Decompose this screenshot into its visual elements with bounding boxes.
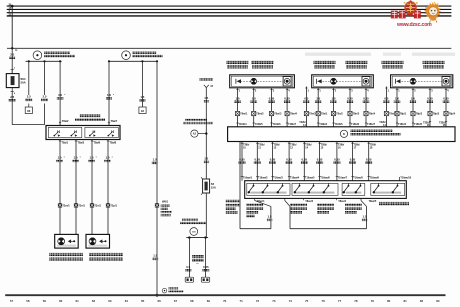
lower connector label 7 bbox=[336, 177, 348, 180]
box C terminal 3 bbox=[423, 121, 431, 127]
svg-text:60: 60 bbox=[59, 299, 63, 303]
rail B2 junctions bbox=[108, 60, 158, 62]
svg-text:1.0: 1.0 bbox=[58, 93, 62, 97]
svg-text:71: 71 bbox=[239, 299, 243, 303]
connector T2 T8a/8 bbox=[106, 203, 118, 207]
wire T8a/8 bbox=[107, 140, 109, 235]
svg-text:61: 61 bbox=[75, 299, 79, 303]
svg-text:T8n/2: T8n/2 bbox=[336, 113, 343, 116]
svg-text:1.5: 1.5 bbox=[204, 157, 208, 161]
lower wire label 5 bbox=[301, 157, 308, 163]
svg-text:T8p/2: T8p/2 bbox=[416, 113, 423, 116]
plug right bbox=[201, 277, 209, 282]
wire B1 drop 1 bbox=[28, 61, 30, 95]
wire label ground wire upper bbox=[152, 158, 158, 164]
svg-text:T8n/3: T8n/3 bbox=[353, 113, 360, 116]
svg-text:T8p/3: T8p/3 bbox=[433, 113, 440, 116]
T8ax/5 label bbox=[369, 200, 377, 203]
wire label B2 drop1 bbox=[106, 93, 115, 100]
J136 lower terminal 5 bbox=[303, 142, 312, 181]
svg-text:T8n/3: T8n/3 bbox=[389, 113, 396, 116]
connection circle B397 bbox=[190, 228, 198, 236]
wire label T8a/6 bbox=[88, 156, 97, 163]
wire T8a/1 bbox=[59, 140, 61, 235]
wire label T8a/3 bbox=[72, 156, 81, 163]
svg-text:T8a/2: T8a/2 bbox=[62, 119, 69, 123]
svg-text:1.0: 1.0 bbox=[106, 156, 110, 160]
svg-text:0.35: 0.35 bbox=[284, 97, 290, 101]
control unit circle K bbox=[340, 130, 347, 137]
wire label 2.5 red bbox=[9, 53, 15, 59]
motor box A bbox=[230, 75, 295, 88]
svg-text:0.5: 0.5 bbox=[304, 97, 308, 101]
lower wire label 3 bbox=[269, 157, 276, 163]
svg-text:80: 80 bbox=[387, 299, 391, 303]
box A terminal 4 bbox=[286, 123, 297, 126]
ground point circle bbox=[162, 288, 167, 293]
svg-text:1.0: 1.0 bbox=[90, 156, 94, 160]
box A wire label 1 bbox=[234, 97, 241, 103]
box C connector 3 bbox=[428, 111, 440, 115]
box C motor 2 bbox=[442, 77, 450, 86]
switch module text bbox=[192, 255, 204, 266]
box A pin 4 bbox=[286, 88, 290, 127]
svg-text:T2n/1: T2n/1 bbox=[78, 205, 85, 208]
svg-text:T8ax/4: T8ax/4 bbox=[338, 200, 346, 203]
svg-text:www.dzsc.com: www.dzsc.com bbox=[396, 22, 432, 28]
svg-text:S5: S5 bbox=[211, 182, 215, 186]
between-box wire bbox=[305, 87, 309, 127]
J136 lower terminal 9 bbox=[368, 142, 377, 181]
svg-text:62: 62 bbox=[92, 299, 96, 303]
motor box V29 text bbox=[89, 253, 123, 261]
terminal T8a/3 bbox=[75, 141, 85, 145]
wire label 15 feed bbox=[204, 96, 210, 102]
svg-text:1.5: 1.5 bbox=[268, 215, 272, 219]
connection A text bbox=[44, 52, 75, 58]
lower switch glyph 5 bbox=[308, 183, 315, 193]
svg-text:T16aw/3: T16aw/3 bbox=[273, 177, 283, 180]
wire label drop3 bbox=[57, 93, 66, 100]
svg-text:T8p/1: T8p/1 bbox=[400, 113, 407, 116]
rail B2 bbox=[108, 60, 157, 62]
connector T2 T8a/6 bbox=[90, 203, 102, 207]
svg-text:T16aw/5: T16aw/5 bbox=[305, 177, 315, 180]
svg-text:T16aw/1: T16aw/1 bbox=[243, 177, 253, 180]
switch box E1 outer bbox=[46, 126, 120, 140]
lower switch glyph 10 bbox=[392, 183, 399, 193]
control unit J136 box bbox=[228, 127, 455, 142]
text col 5 bbox=[345, 203, 362, 213]
wire B1 drop 2 label bbox=[41, 95, 48, 101]
svg-text:0.35: 0.35 bbox=[334, 157, 340, 161]
faint scan text bbox=[305, 53, 455, 56]
wire label above fuse S5 bbox=[204, 157, 210, 163]
svg-text:76: 76 bbox=[321, 299, 325, 303]
box B motor 1 bbox=[331, 78, 337, 84]
connector T2 T8a/1 bbox=[58, 203, 70, 207]
lower inner box 3 bbox=[342, 183, 365, 195]
T8ax/3 label bbox=[304, 198, 314, 202]
box A pin 1 bbox=[236, 88, 240, 127]
lower connector label 3 bbox=[271, 177, 283, 180]
svg-text:1.0: 1.0 bbox=[411, 97, 415, 101]
lower switch glyph 1 bbox=[248, 183, 255, 193]
box C wire label 4 bbox=[443, 97, 450, 103]
box A terminal 3 bbox=[270, 123, 281, 126]
lower wire label 7 bbox=[333, 157, 340, 163]
box C dashed link bbox=[399, 80, 447, 82]
svg-text:0.35: 0.35 bbox=[255, 157, 261, 161]
svg-text:70: 70 bbox=[223, 299, 227, 303]
box B label left bbox=[314, 61, 336, 69]
J136 lower terminal 7 bbox=[336, 142, 345, 181]
svg-text:0.35: 0.35 bbox=[269, 97, 275, 101]
box B connector 3 bbox=[348, 111, 360, 115]
wire S5 to bar bbox=[205, 193, 207, 238]
wire label drop1 bbox=[25, 95, 32, 101]
svg-text:T16b/5: T16b/5 bbox=[414, 123, 423, 126]
box C label left bbox=[382, 61, 404, 69]
wire T8a/6 bbox=[91, 140, 93, 235]
wire label ground wire bbox=[152, 254, 158, 260]
svg-text:72: 72 bbox=[256, 299, 260, 303]
wire 15 feed symbol bbox=[200, 78, 214, 88]
lower inner box 2 bbox=[292, 183, 338, 195]
terminal T8a/8 bbox=[107, 141, 117, 145]
svg-text:1.0: 1.0 bbox=[236, 97, 240, 101]
box B wire label 2 bbox=[330, 97, 337, 103]
between-box terminal bbox=[299, 121, 306, 127]
svg-text:0.35: 0.35 bbox=[302, 157, 308, 161]
track numbers bbox=[10, 299, 440, 303]
lower switch glyph 9 bbox=[373, 183, 380, 193]
svg-text:H: H bbox=[16, 49, 18, 52]
svg-text:T8ax/1: T8ax/1 bbox=[257, 200, 265, 203]
wire B2 drop 1 bbox=[108, 61, 110, 125]
svg-text:0.35: 0.35 bbox=[347, 97, 353, 101]
lower wire label 8 bbox=[349, 157, 356, 163]
switch box E1 inner left bbox=[48, 127, 81, 137]
motor box V28 bbox=[55, 234, 78, 248]
lower inner box 1 bbox=[247, 183, 290, 195]
box B wire label 1 bbox=[315, 97, 322, 103]
switch glyph 1 bbox=[54, 130, 61, 136]
wire label B2 drop2 bbox=[139, 95, 145, 101]
lower switch glyph 7 bbox=[343, 183, 350, 193]
svg-text:0.35: 0.35 bbox=[317, 157, 323, 161]
box A arrow bbox=[236, 79, 241, 84]
box B arrow bbox=[317, 79, 322, 84]
junction rail A bbox=[11, 47, 18, 52]
svg-text:65: 65 bbox=[141, 299, 145, 303]
plug left bbox=[185, 277, 193, 282]
svg-text:18: 18 bbox=[141, 109, 145, 113]
text col 3 bbox=[290, 203, 307, 213]
svg-text:T16b/4: T16b/4 bbox=[398, 123, 407, 126]
J136 lower terminal 3 bbox=[271, 142, 280, 181]
svg-text:0.35: 0.35 bbox=[427, 97, 433, 101]
svg-text:T8a/1: T8a/1 bbox=[61, 141, 68, 145]
connection circle A (30) bbox=[33, 51, 42, 60]
fuse S64 bbox=[6, 68, 19, 95]
wire B2 drop 3 (to ground) bbox=[156, 61, 158, 294]
box A motor 1 bbox=[251, 78, 257, 84]
svg-text:1.0: 1.0 bbox=[107, 93, 111, 97]
svg-text:57: 57 bbox=[10, 299, 14, 303]
svg-text:2.5: 2.5 bbox=[43, 95, 47, 99]
svg-text:1.5: 1.5 bbox=[153, 254, 157, 258]
between-box connector bbox=[384, 111, 396, 115]
box B label right bbox=[346, 61, 368, 69]
U-turn wire bbox=[12, 104, 44, 125]
box B terminal 3 bbox=[349, 123, 360, 126]
svg-text:T8n/3: T8n/3 bbox=[309, 113, 316, 116]
svg-text:1.5: 1.5 bbox=[204, 96, 208, 100]
box B connector 2 bbox=[331, 111, 343, 115]
svg-text:75: 75 bbox=[305, 299, 309, 303]
wire label T8a/8 bbox=[104, 156, 113, 163]
box C pin 1 bbox=[396, 88, 400, 127]
svg-text:66: 66 bbox=[157, 299, 161, 303]
svg-text:0.35: 0.35 bbox=[350, 157, 356, 161]
svg-text:T8n/1: T8n/1 bbox=[321, 113, 328, 116]
svg-text:73: 73 bbox=[272, 299, 276, 303]
svg-text:W6/1: W6/1 bbox=[162, 200, 169, 204]
svg-text:59: 59 bbox=[43, 299, 47, 303]
box B pin 2 bbox=[332, 88, 336, 127]
switch box E1 inner right bbox=[85, 127, 118, 137]
bottom earth rail bbox=[5, 294, 445, 296]
between-box wire label bbox=[383, 97, 390, 103]
box B connector 1 bbox=[316, 111, 328, 115]
text col 4 bbox=[317, 203, 334, 213]
svg-text:T16b/7: T16b/7 bbox=[367, 123, 376, 126]
wire to fuse S64 bbox=[11, 48, 13, 73]
box A terminal 2 bbox=[253, 123, 264, 126]
lower connector label 5 bbox=[303, 177, 315, 180]
svg-text:68: 68 bbox=[190, 299, 194, 303]
box C pin 4 bbox=[445, 88, 449, 127]
svg-text:T8a/7: T8a/7 bbox=[111, 119, 118, 123]
svg-text:83: 83 bbox=[27, 109, 31, 113]
wire B1 drop 2 bbox=[44, 61, 46, 95]
wire fuse to U-turn bbox=[11, 91, 13, 124]
svg-text:T8n/4: T8n/4 bbox=[369, 113, 376, 116]
lower wire label 2 bbox=[254, 157, 261, 163]
U1 terminal label bbox=[257, 200, 265, 203]
wire B2 drop 2 bbox=[141, 61, 143, 107]
svg-text:T16b/6: T16b/6 bbox=[351, 123, 360, 126]
between-box connector bbox=[304, 111, 316, 115]
box B wire label 3 bbox=[347, 97, 354, 103]
svg-text:15A: 15A bbox=[211, 185, 216, 189]
svg-text:1.0: 1.0 bbox=[58, 156, 62, 160]
target box 83 bbox=[25, 104, 32, 114]
U2 wire bbox=[285, 198, 367, 228]
connection bar text bbox=[180, 219, 206, 225]
lower wire label 4 bbox=[286, 157, 293, 163]
svg-text:T8m/2: T8m/2 bbox=[256, 113, 264, 116]
svg-text:79: 79 bbox=[371, 299, 375, 303]
fuse S64 value bbox=[20, 77, 25, 84]
lower connector label 2 bbox=[256, 177, 268, 180]
motor box V28 text bbox=[49, 253, 83, 261]
connection B text bbox=[133, 52, 163, 58]
svg-text:T16b/6: T16b/6 bbox=[273, 123, 282, 126]
lower wire label 1 bbox=[239, 157, 246, 163]
ground junction bbox=[156, 294, 159, 297]
svg-text:1.0: 1.0 bbox=[74, 156, 78, 160]
svg-text:0.35: 0.35 bbox=[286, 157, 292, 161]
wire label T8a/1 bbox=[56, 156, 65, 163]
text col 2 bbox=[247, 203, 264, 217]
box C wire label 2 bbox=[410, 97, 417, 103]
svg-text:64: 64 bbox=[125, 299, 129, 303]
lower connector label 6 bbox=[318, 177, 330, 180]
box C motor 1 bbox=[410, 78, 416, 84]
svg-text:T16aw/9: T16aw/9 bbox=[370, 177, 380, 180]
terminal T8a/7 bbox=[108, 119, 118, 126]
svg-text:T2o/1: T2o/1 bbox=[94, 205, 101, 208]
svg-text:1.0: 1.0 bbox=[252, 97, 256, 101]
wire bar drop right bbox=[205, 238, 207, 278]
svg-text:1.0: 1.0 bbox=[316, 97, 320, 101]
rail B1 bbox=[26, 60, 62, 62]
box B dashed link bbox=[320, 80, 368, 82]
bus line 31 bbox=[7, 13, 452, 16]
lower connector label 9 bbox=[368, 177, 380, 180]
terminal T8a/1 bbox=[59, 141, 69, 145]
lower connector label 4 bbox=[288, 177, 300, 180]
box B motor 2 bbox=[362, 77, 370, 86]
U1 wire bbox=[240, 142, 271, 229]
svg-text:T16b/4: T16b/4 bbox=[239, 123, 248, 126]
svg-text:T16aw/2: T16aw/2 bbox=[258, 177, 268, 180]
lower connector label 8 bbox=[351, 177, 363, 180]
motor box B bbox=[312, 75, 374, 88]
svg-text:T8a/8: T8a/8 bbox=[109, 141, 116, 145]
svg-text:T2m/1: T2m/1 bbox=[62, 205, 70, 208]
J136 lower terminal 6 bbox=[318, 142, 327, 181]
J136 lower terminal 1 bbox=[241, 142, 250, 181]
U2 wire label bbox=[362, 215, 368, 221]
svg-text:74: 74 bbox=[289, 299, 293, 303]
svg-text:0.5: 0.5 bbox=[384, 97, 388, 101]
connector T2 T8a/3 bbox=[74, 203, 86, 207]
terminal T8a/6 bbox=[91, 141, 101, 145]
plus connection circle A2 bbox=[183, 119, 213, 138]
svg-text:T16b/5: T16b/5 bbox=[335, 123, 344, 126]
svg-text:82: 82 bbox=[420, 299, 424, 303]
target box 18 bbox=[139, 107, 146, 114]
lower wire label 9 bbox=[365, 157, 372, 163]
wire from bus 30 down bbox=[11, 6, 13, 48]
lower switch box outer bbox=[245, 181, 407, 199]
text col 1 bbox=[226, 200, 240, 214]
junction on bus 30 bbox=[11, 5, 14, 8]
svg-text:T16aw/8: T16aw/8 bbox=[353, 177, 363, 180]
between-box wire label bbox=[303, 97, 310, 103]
svg-text:T8ax/5: T8ax/5 bbox=[369, 200, 377, 203]
box C terminal 1 bbox=[396, 123, 407, 126]
connection circle B (31) bbox=[122, 51, 131, 60]
box A wire label 4 bbox=[284, 97, 291, 103]
svg-text:1.5: 1.5 bbox=[140, 95, 144, 99]
box C arrow bbox=[395, 79, 400, 84]
svg-text:T8m/3: T8m/3 bbox=[274, 113, 282, 116]
box B pin 1 bbox=[317, 88, 321, 127]
lamp switch note bbox=[161, 205, 172, 217]
T8ax/4 label bbox=[337, 198, 347, 202]
wire B1 drop 3 bbox=[59, 61, 61, 125]
bus line X bbox=[7, 10, 452, 13]
box C label right bbox=[423, 61, 445, 69]
wire T8a/3 bbox=[75, 140, 77, 235]
svg-text:T16aw/6: T16aw/6 bbox=[320, 177, 330, 180]
stub headrest bbox=[399, 177, 411, 181]
switch glyph 4 bbox=[108, 130, 115, 136]
bus line 15 bbox=[7, 7, 452, 10]
headrest switch text bbox=[379, 202, 409, 205]
box A pin 2 bbox=[253, 88, 257, 127]
svg-text:0.35: 0.35 bbox=[443, 97, 449, 101]
box B pin 4 bbox=[365, 88, 369, 127]
svg-text:T16aw/10: T16aw/10 bbox=[400, 177, 411, 180]
box A connector 3 bbox=[269, 111, 282, 115]
wire label bar left bbox=[185, 265, 191, 271]
box A connector 2 bbox=[252, 111, 265, 115]
box C terminal 4 bbox=[439, 121, 447, 127]
svg-text:T8p/4: T8p/4 bbox=[449, 113, 456, 116]
box A connector 4 bbox=[285, 111, 298, 115]
box A label left bbox=[227, 61, 249, 69]
lower connector label 1 bbox=[241, 177, 253, 180]
wire label bar right bbox=[202, 265, 209, 271]
svg-text:T16b/7: T16b/7 bbox=[288, 123, 297, 126]
svg-text:69: 69 bbox=[207, 299, 211, 303]
svg-text:T8m/4: T8m/4 bbox=[290, 113, 298, 116]
svg-text:1.0: 1.0 bbox=[332, 97, 336, 101]
switch glyph 3 bbox=[89, 130, 96, 136]
connector W on ground wire bbox=[155, 200, 169, 208]
svg-text:77: 77 bbox=[338, 299, 342, 303]
svg-text:T16b/4: T16b/4 bbox=[319, 123, 328, 126]
watermark logo bbox=[391, 0, 441, 28]
box B terminal 2 bbox=[332, 123, 343, 126]
box C connector 4 bbox=[444, 111, 456, 115]
svg-text:T16aw/7: T16aw/7 bbox=[338, 177, 348, 180]
box B pin 3 bbox=[349, 88, 353, 127]
lower switch glyph 8 bbox=[355, 183, 362, 193]
svg-text:83: 83 bbox=[436, 299, 440, 303]
ground point text bbox=[169, 287, 184, 292]
lower switch glyph 4 bbox=[294, 183, 301, 193]
terminal T8a/2 bbox=[59, 119, 69, 126]
connection bar bbox=[186, 236, 208, 238]
J136 lower terminal 4 bbox=[288, 142, 297, 181]
svg-text:0.35: 0.35 bbox=[366, 157, 372, 161]
rail B1 junctions bbox=[28, 60, 62, 62]
lower switch glyph 2 bbox=[262, 183, 269, 193]
box B wire label 4 bbox=[363, 97, 370, 103]
box A motor 2 bbox=[283, 77, 291, 86]
svg-text:0.35: 0.35 bbox=[203, 265, 209, 269]
lower switch glyph 6 bbox=[323, 183, 330, 193]
svg-text:0.5: 0.5 bbox=[186, 265, 190, 269]
lower wire label 6 bbox=[316, 157, 323, 163]
box B connector 4 bbox=[364, 111, 376, 115]
